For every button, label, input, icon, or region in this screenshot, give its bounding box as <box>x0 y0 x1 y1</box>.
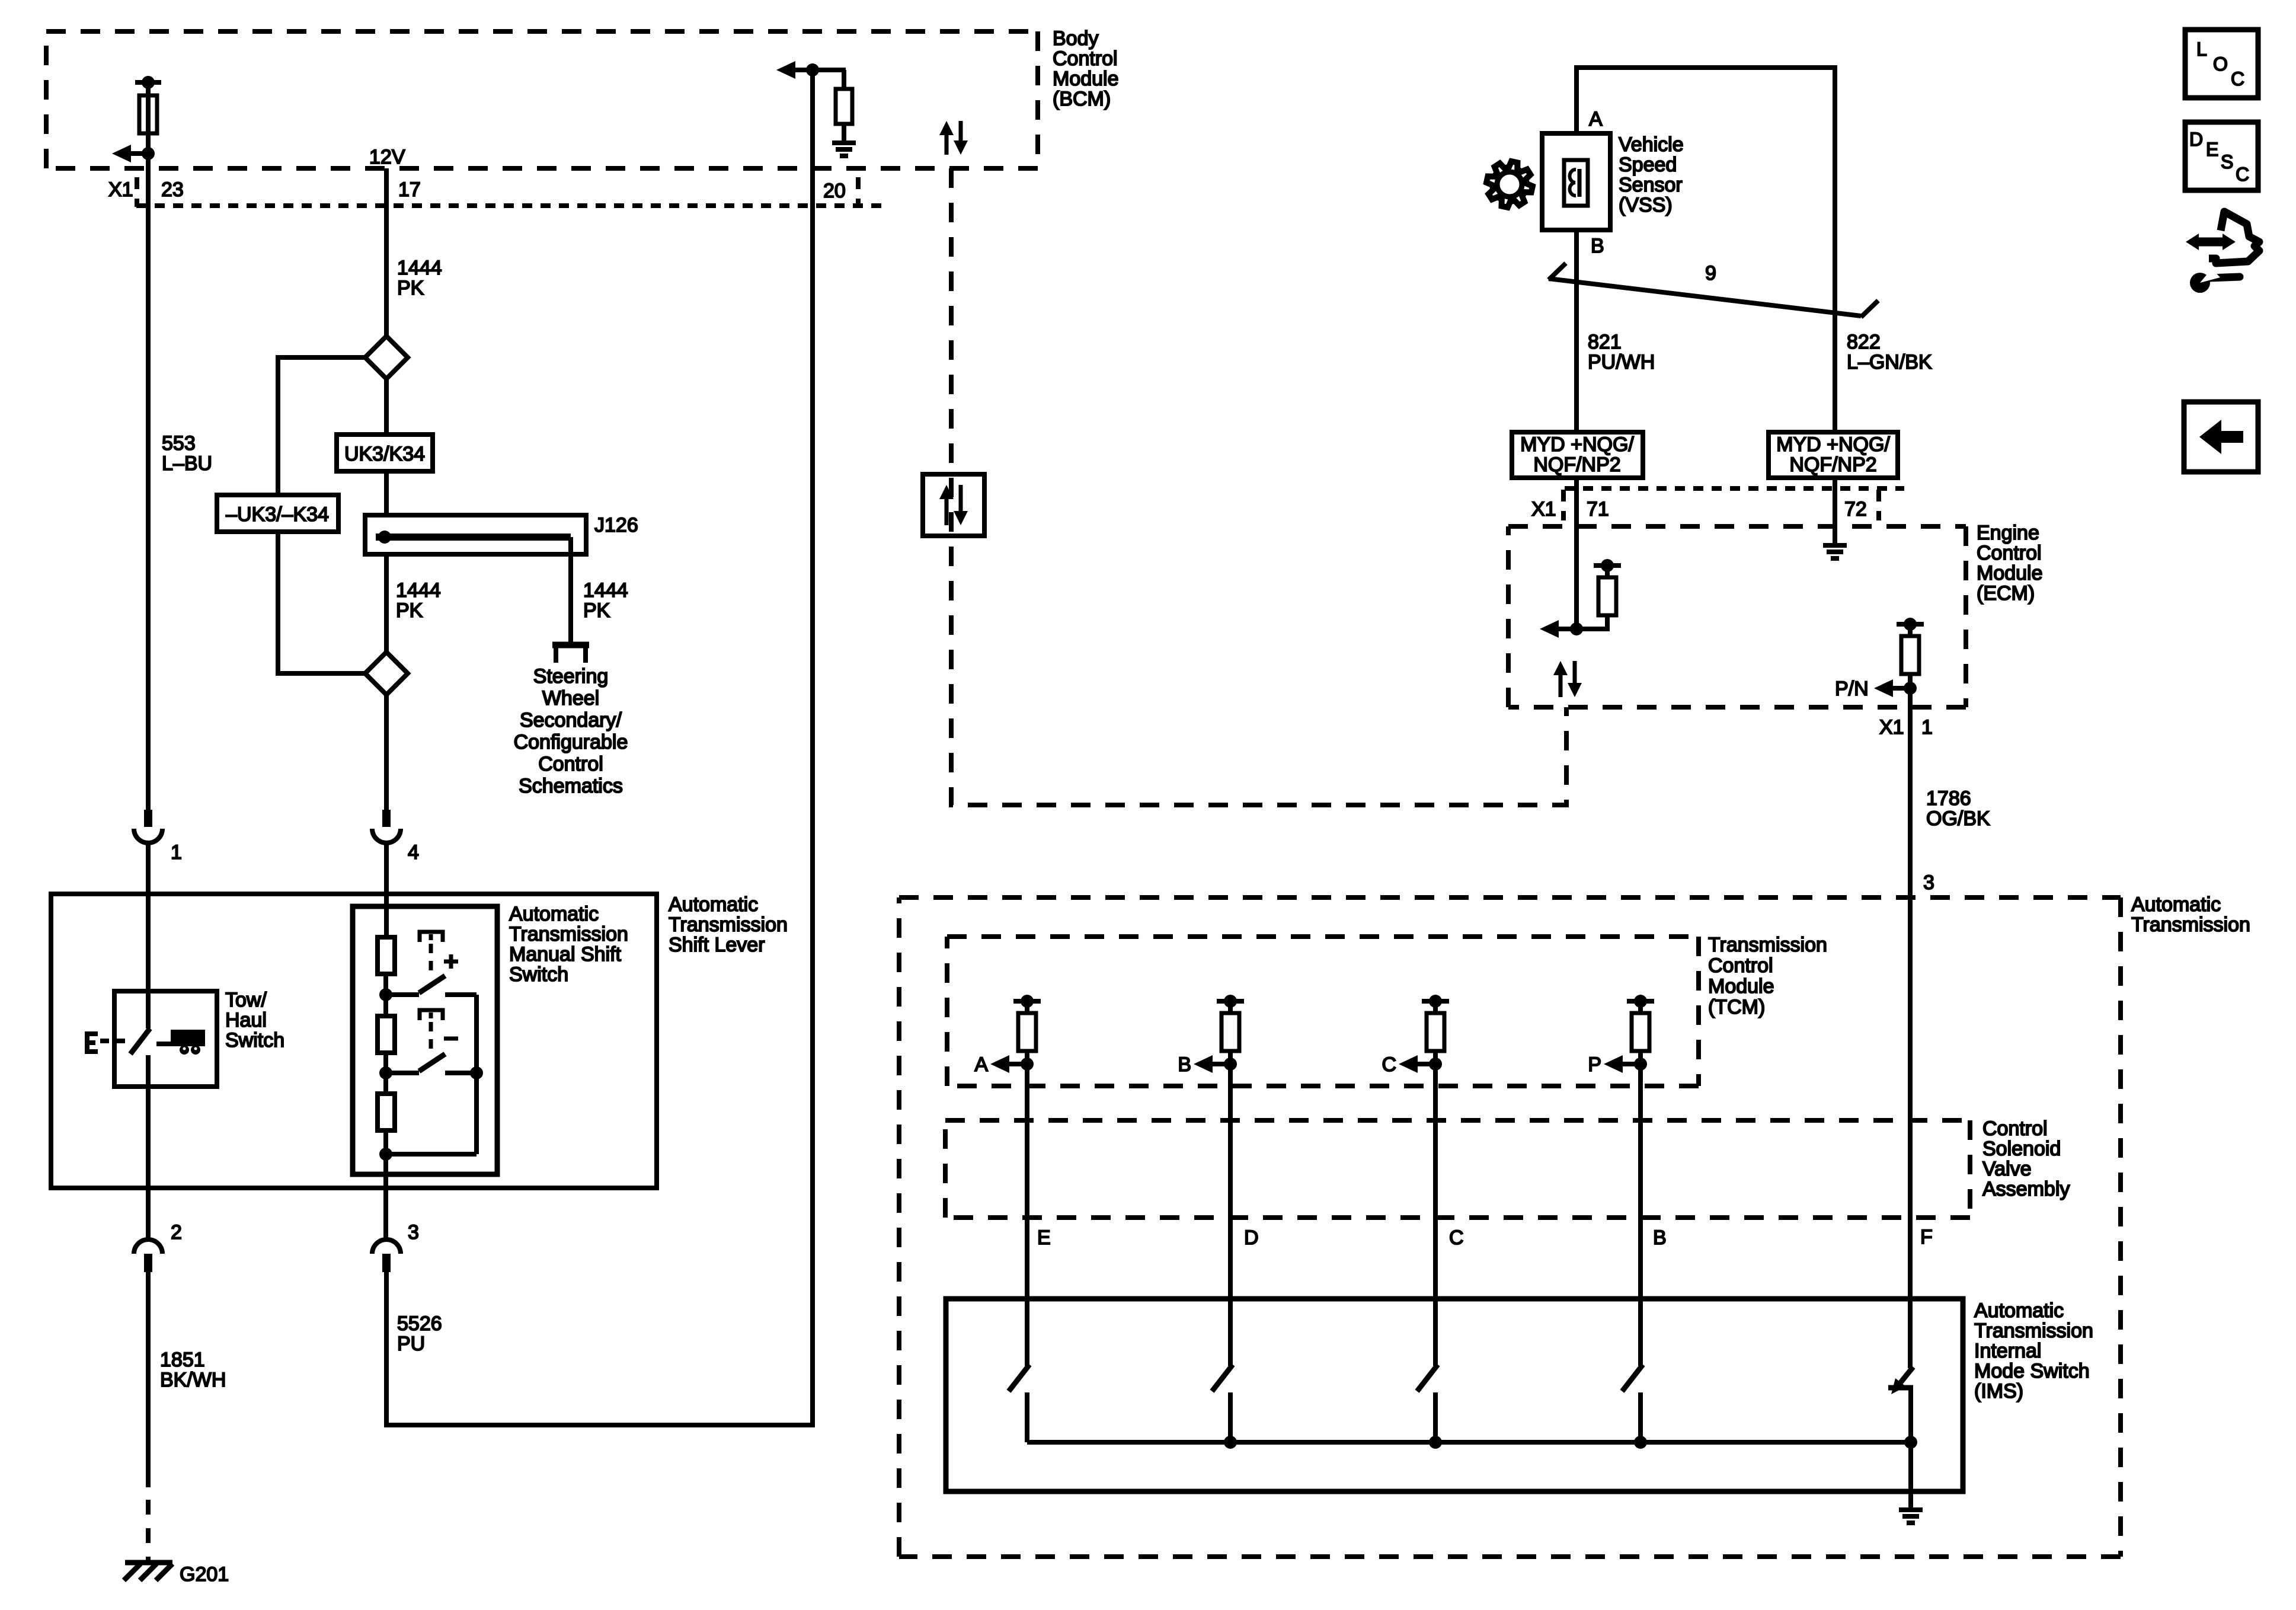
label: - <box>444 1037 458 1041</box>
component box: Tow/Haul Switch <box>114 991 217 1087</box>
wire: TCM pin C to solenoid assembly / IMS <box>1433 1064 1438 1366</box>
svg-text:Transmission: Transmission <box>2131 913 2250 936</box>
serial data arrows (ECM) <box>1553 661 1582 697</box>
signal arrow B <box>1194 1055 1237 1073</box>
svg-text:C: C <box>1382 1053 1396 1076</box>
wire: 822 below option box <box>1833 478 1837 543</box>
wire: TCM B output node <box>1228 1051 1233 1064</box>
svg-text:Control: Control <box>1708 954 1773 977</box>
svg-text:Control: Control <box>1053 47 1118 70</box>
svg-text:9: 9 <box>1705 262 1716 285</box>
svg-text:Module: Module <box>1053 68 1119 90</box>
svg-text:2: 2 <box>171 1221 182 1244</box>
label: + <box>444 954 458 969</box>
ground symbol (ECM, circuit 822) <box>1823 543 1847 548</box>
module box: Body Control Module (BCM), dashed outline <box>46 29 1038 34</box>
svg-text:Secondary/: Secondary/ <box>520 709 622 731</box>
svg-text:(BCM): (BCM) <box>1053 88 1111 110</box>
svg-text:3: 3 <box>1923 871 1934 894</box>
svg-text:1444: 1444 <box>583 579 628 602</box>
resistor R-BCM2 (pull-up on pin 20) <box>813 70 852 143</box>
svg-text:Vehicle: Vehicle <box>1619 133 1684 156</box>
junction dot bus F <box>1904 1436 1917 1449</box>
component box: Automatic Transmission Manual Shift Switch <box>353 906 497 1174</box>
wire: 1444 PK drop from J126 to steering wheel controls <box>568 537 573 642</box>
connector tick X1 right (ECM) <box>1876 490 1881 520</box>
wire: TCM C output node <box>1433 1051 1438 1064</box>
svg-text:J126: J126 <box>594 514 638 536</box>
svg-text:C: C <box>2231 68 2244 90</box>
wire: VSS pin B (circuit 821) <box>1574 230 1579 432</box>
wire: resistor to pin 71 node <box>1576 615 1607 629</box>
wire: TCM pin P to solenoid assembly / IMS <box>1638 1064 1643 1366</box>
actuator bracket (+) <box>420 932 443 942</box>
svg-text:20: 20 <box>823 180 846 202</box>
junction node 2 (- tap) <box>379 1066 392 1079</box>
module box: Automatic Transmission, dashed outline <box>899 895 2121 900</box>
wire: TCM A output node <box>1025 1051 1029 1064</box>
svg-text:Switch: Switch <box>225 1029 284 1052</box>
wire: BCM pin 20 down to shift lever pin 3 (circuit 5526) <box>386 70 813 1425</box>
svg-text:12V: 12V <box>369 146 405 168</box>
svg-text:Shift Lever: Shift Lever <box>669 934 765 956</box>
svg-text:3: 3 <box>408 1221 419 1244</box>
svg-text:Transmission: Transmission <box>1708 934 1827 956</box>
svg-text:Switch: Switch <box>509 963 568 986</box>
svg-text:(ECM): (ECM) <box>1977 582 2035 605</box>
wire: VSS supply loop (A to ground side) <box>1576 68 1835 432</box>
ground symbol (BCM internal) <box>832 140 856 145</box>
svg-text:1: 1 <box>1921 716 1933 739</box>
switch blade - (momentary down) <box>419 1054 445 1071</box>
in-line connector terminal 3 (female half) <box>372 1240 401 1254</box>
svg-text:L–BU: L–BU <box>162 452 212 475</box>
svg-text:1786: 1786 <box>1926 787 1971 810</box>
serial data symbol box <box>923 474 984 536</box>
svg-text:Engine: Engine <box>1977 522 2039 544</box>
svg-text:Body: Body <box>1053 27 1099 50</box>
svg-text:NQF/NP2: NQF/NP2 <box>1533 453 1620 476</box>
svg-text:5526: 5526 <box>397 1312 442 1335</box>
IMS switch blade (open) at x=2076 <box>1212 1365 1233 1442</box>
connector tick X1 right <box>856 177 861 207</box>
off-page connector (to steering wheel controls) <box>552 645 589 663</box>
mechanical dashed link (-) <box>429 1022 433 1051</box>
wire: TCM P output node <box>1638 1051 1643 1064</box>
svg-text:(TCM): (TCM) <box>1708 996 1765 1018</box>
switch blade (Tow/Haul, open) <box>130 1028 150 1087</box>
svg-text:OG/BK: OG/BK <box>1926 807 1990 830</box>
signal arrow (BCM internal, pin 20 node) <box>776 61 819 79</box>
junction dot on right bus (- row) <box>470 1066 483 1079</box>
svg-text:G201: G201 <box>180 1563 229 1586</box>
wire: TCM pin A to solenoid assembly / IMS <box>1025 1064 1029 1366</box>
svg-text:Transmission: Transmission <box>509 923 628 945</box>
fixed contact + to right bus <box>445 992 477 997</box>
svg-text:72: 72 <box>1844 498 1867 520</box>
svg-text:P/N: P/N <box>1835 678 1869 700</box>
svg-text:(VSS): (VSS) <box>1619 194 1673 216</box>
svg-text:PU: PU <box>397 1333 425 1355</box>
label: L O C (diagonal) <box>2196 39 2244 90</box>
svg-text:NQF/NP2: NQF/NP2 <box>1789 453 1876 476</box>
svg-text:D: D <box>1244 1226 1259 1249</box>
component box: Automatic Transmission Shift Lever <box>51 894 657 1188</box>
connector line X1 (ECM harness connector, dotted) <box>1565 486 1904 491</box>
svg-text:71: 71 <box>1587 498 1609 520</box>
wire: circuit 1851 BK/WH to ground <box>146 1272 151 1487</box>
svg-text:O: O <box>2213 53 2228 75</box>
gear icon (reluctor wheel) <box>1486 161 1533 207</box>
signal arrow P <box>1604 1055 1647 1073</box>
svg-text:Automatic: Automatic <box>2131 893 2221 916</box>
junction dot bus D <box>1224 1436 1237 1449</box>
svg-text:E: E <box>1037 1226 1051 1249</box>
in-line connector C2 terminal 4 (male half) <box>382 810 391 827</box>
svg-text:1444: 1444 <box>397 257 442 279</box>
svg-text:PK: PK <box>583 599 610 622</box>
resistor R-TCM-P with supply T-bar <box>1627 995 1654 1051</box>
fixed contact - to right bus <box>445 1071 477 1075</box>
svg-text:Sensor: Sensor <box>1619 174 1683 196</box>
option box MYD +NQG/NQF/NP2 (left) <box>1512 432 1643 478</box>
module box: Control Solenoid Valve Assembly, dashed outline <box>945 1118 1970 1123</box>
svg-text:Automatic: Automatic <box>1974 1299 2064 1322</box>
wire: TCM pin B to solenoid assembly / IMS <box>1228 1064 1233 1366</box>
resistor R-TCM-A with supply T-bar <box>1013 995 1041 1051</box>
resistor R2 (manual shift switch) <box>378 995 395 1073</box>
svg-text:F: F <box>1920 1226 1933 1248</box>
connector tick X1 left <box>135 177 139 207</box>
sidebar icon: shift/diagnostic hook symbol <box>2209 212 2259 263</box>
svg-text:C: C <box>2236 164 2249 185</box>
svg-text:(IMS): (IMS) <box>1974 1380 2023 1403</box>
svg-text:Wheel: Wheel <box>542 687 599 710</box>
lamp terminal E of Tow/Haul switch <box>85 1031 98 1054</box>
ground G201 (chassis) <box>124 1563 172 1580</box>
resistor R3 (manual shift switch) <box>378 1073 395 1154</box>
junction dot bus B <box>1634 1436 1647 1449</box>
svg-text:Tow/: Tow/ <box>225 989 267 1011</box>
IMS switch blade (open) at x=2422 <box>1417 1365 1438 1442</box>
right bus of manual shift switch <box>474 995 479 1154</box>
svg-text:Mode Switch: Mode Switch <box>1974 1360 2090 1382</box>
wire: - tap to blade pivot <box>386 1071 419 1075</box>
wire: Tow/Haul switch to connector terminal 2 <box>146 1087 151 1240</box>
wire: option branch lower segment <box>278 532 365 673</box>
svg-text:Module: Module <box>1708 975 1774 998</box>
svg-text:Assembly: Assembly <box>1982 1178 2070 1200</box>
VSS inductive pickup symbol <box>1564 160 1588 206</box>
module box: Engine Control Module (ECM), dashed outline <box>1508 524 1966 529</box>
IMS switch blade (open) at x=1733 <box>1009 1365 1029 1442</box>
svg-text:PU/WH: PU/WH <box>1588 351 1655 373</box>
svg-text:Speed: Speed <box>1619 154 1677 176</box>
twisted pair slash with ticks <box>1549 263 1878 317</box>
svg-text:Control: Control <box>1977 542 2042 564</box>
svg-text:PK: PK <box>396 599 423 622</box>
resistor R-BCM1 (pull-up on pin 23) with supply T-bar <box>135 76 161 154</box>
svg-text:X1: X1 <box>1879 716 1904 739</box>
resistor R-TCM-B with supply T-bar <box>1217 995 1244 1051</box>
svg-text:Solenoid: Solenoid <box>1982 1138 2061 1160</box>
signal arrow C <box>1399 1055 1442 1073</box>
wire: 821 below option box <box>1574 478 1579 629</box>
module box: Transmission Control Module (TCM), dashed outline <box>947 934 1699 939</box>
trailer icon (Tow/Haul) <box>156 1030 205 1055</box>
svg-text:17: 17 <box>398 178 421 201</box>
svg-text:Transmission: Transmission <box>1974 1320 2093 1342</box>
svg-text:Schematics: Schematics <box>519 775 623 797</box>
svg-text:1444: 1444 <box>396 579 441 602</box>
svg-text:C: C <box>1449 1226 1464 1249</box>
option box MYD +NQG/NQF/NP2 (right) <box>1769 432 1898 478</box>
svg-text:PK: PK <box>397 277 424 299</box>
mechanical dashed link (+) <box>429 944 433 973</box>
svg-text:Haul: Haul <box>225 1009 267 1031</box>
actuator bracket (-) <box>420 1010 443 1020</box>
ground symbol (IMS case) <box>1899 1507 1923 1512</box>
svg-text:1: 1 <box>171 841 182 864</box>
svg-text:23: 23 <box>161 178 184 201</box>
connector tick X1 left (ECM) <box>1561 490 1566 520</box>
svg-text:MYD +NQG/: MYD +NQG/ <box>1776 433 1890 456</box>
svg-text:A: A <box>974 1053 988 1076</box>
wire: 1444 PK through UK3/K34 <box>384 379 389 435</box>
connector line X1 (BCM harness connector, dotted) <box>136 203 885 208</box>
wire: resistor to P/N node <box>1908 674 1913 688</box>
svg-text:Automatic: Automatic <box>509 903 599 925</box>
svg-text:L: L <box>2196 39 2207 60</box>
svg-text:822: 822 <box>1847 331 1881 353</box>
junction dot bus C <box>1429 1436 1442 1449</box>
svg-text:X1: X1 <box>1531 498 1556 520</box>
signal arrow A <box>990 1055 1034 1073</box>
svg-text:Steering: Steering <box>533 665 609 688</box>
wire: right bus return to common node <box>386 1152 477 1157</box>
serial data dashed wire (BCM to ECM) <box>951 168 1566 805</box>
svg-text:Internal: Internal <box>1974 1340 2041 1362</box>
IMS switch blade F (closed, wiper) <box>1888 1367 1913 1442</box>
svg-text:S: S <box>2221 151 2233 172</box>
option box -UK3/-K34 <box>217 495 338 532</box>
svg-text:A: A <box>1589 108 1603 130</box>
signal arrow P/N <box>1874 679 1917 697</box>
sidebar icon box: LOC <box>2185 30 2258 98</box>
svg-text:Valve: Valve <box>1982 1158 2032 1180</box>
sidebar icon: left arrow <box>2199 420 2243 454</box>
svg-text:Configurable: Configurable <box>514 731 628 753</box>
svg-text:1851: 1851 <box>160 1349 205 1371</box>
label: D E S C (diagonal) <box>2189 129 2249 185</box>
svg-text:Transmission: Transmission <box>669 913 788 936</box>
svg-text:D: D <box>2189 129 2203 150</box>
wire: into shift lever assembly (terminal 1) <box>146 843 151 1028</box>
splice diamond S2 <box>365 652 408 695</box>
sidebar icon box: left arrow <box>2184 402 2258 472</box>
svg-text:MYD +NQG/: MYD +NQG/ <box>1520 433 1634 456</box>
switch blade + (momentary up) <box>419 976 445 993</box>
svg-text:4: 4 <box>408 841 419 864</box>
wire: ECM pin 1 (circuit 1786) down to transmission <box>1908 688 1913 1368</box>
svg-text:821: 821 <box>1588 331 1622 353</box>
svg-text:X1: X1 <box>108 178 133 201</box>
wire: dashed tail to G201 <box>146 1500 151 1565</box>
wire: J126 to splice S2 <box>384 554 389 652</box>
serial data arrows (boxed) <box>939 485 968 525</box>
svg-text:Control: Control <box>538 753 603 775</box>
svg-text:Module: Module <box>1977 562 2043 584</box>
svg-text:Manual Shift: Manual Shift <box>509 943 622 966</box>
svg-text:P: P <box>1588 1053 1601 1076</box>
wire: common node to connector terminal 3 <box>383 1154 388 1240</box>
svg-text:–UK3/–K34: –UK3/–K34 <box>226 503 329 526</box>
resistor R-ECM2 T-bar <box>1897 618 1924 674</box>
wire: 12V feed from BCM pin 17 <box>384 168 389 336</box>
svg-text:UK3/K34: UK3/K34 <box>344 443 425 465</box>
svg-text:Automatic: Automatic <box>669 893 758 916</box>
IMS switch blade (open) at x=2768 <box>1622 1365 1643 1442</box>
wire: + tap to blade pivot <box>386 992 419 997</box>
wire: splice S2 to connector C2 terminal 4 <box>384 695 389 810</box>
sidebar icon box: DESC <box>2185 122 2258 190</box>
junction node 1 (+ tap) <box>379 988 392 1001</box>
splice diamond S1 <box>365 336 408 379</box>
sidebar icon: double-headed arrow <box>2186 234 2236 250</box>
resistor R1 (manual shift switch) <box>378 937 395 995</box>
signal arrow (BCM internal, pin 23 node) <box>112 145 155 162</box>
svg-text:BK/WH: BK/WH <box>160 1369 226 1391</box>
svg-text:Control: Control <box>1982 1117 2048 1140</box>
component box: Vehicle Speed Sensor (VSS) <box>1542 133 1610 230</box>
resistor R-TCM-C with supply T-bar <box>1422 995 1449 1051</box>
svg-text:B: B <box>1653 1226 1667 1249</box>
signal arrow (ECM VSS input) <box>1540 620 1583 638</box>
sidebar icon: wrench <box>2190 269 2240 293</box>
serial data arrows (BCM) <box>939 121 968 155</box>
IMS common bus <box>1027 1440 1911 1445</box>
resistor R-ECM1 T-bar <box>1594 559 1621 615</box>
svg-text:B: B <box>1178 1053 1191 1076</box>
wire: splice branch to -UK3/-K34 option <box>278 357 365 495</box>
svg-text:L–GN/BK: L–GN/BK <box>1847 351 1932 373</box>
wire: BCM pin 23 to connector C1 terminal 1 (circuit 553) <box>146 82 151 810</box>
junction node 3 (common) <box>379 1148 392 1161</box>
option box UK3/K34 <box>337 435 433 471</box>
wire: IMS common to case ground <box>1908 1442 1913 1507</box>
in-line connector terminal 2 (female half) <box>134 1240 162 1254</box>
svg-text:B: B <box>1591 235 1604 257</box>
wire: into shift lever assembly (terminal 4) <box>384 843 389 937</box>
component box: Automatic Transmission Internal Mode Switch (IMS) <box>946 1299 1963 1491</box>
svg-text:E: E <box>2206 139 2218 160</box>
junction block J126 (bus bar) <box>365 515 586 554</box>
svg-text:553: 553 <box>162 432 196 455</box>
dashed link from E to switch box <box>100 1039 126 1043</box>
in-line connector C1 terminal 1 (male half) <box>144 810 152 827</box>
